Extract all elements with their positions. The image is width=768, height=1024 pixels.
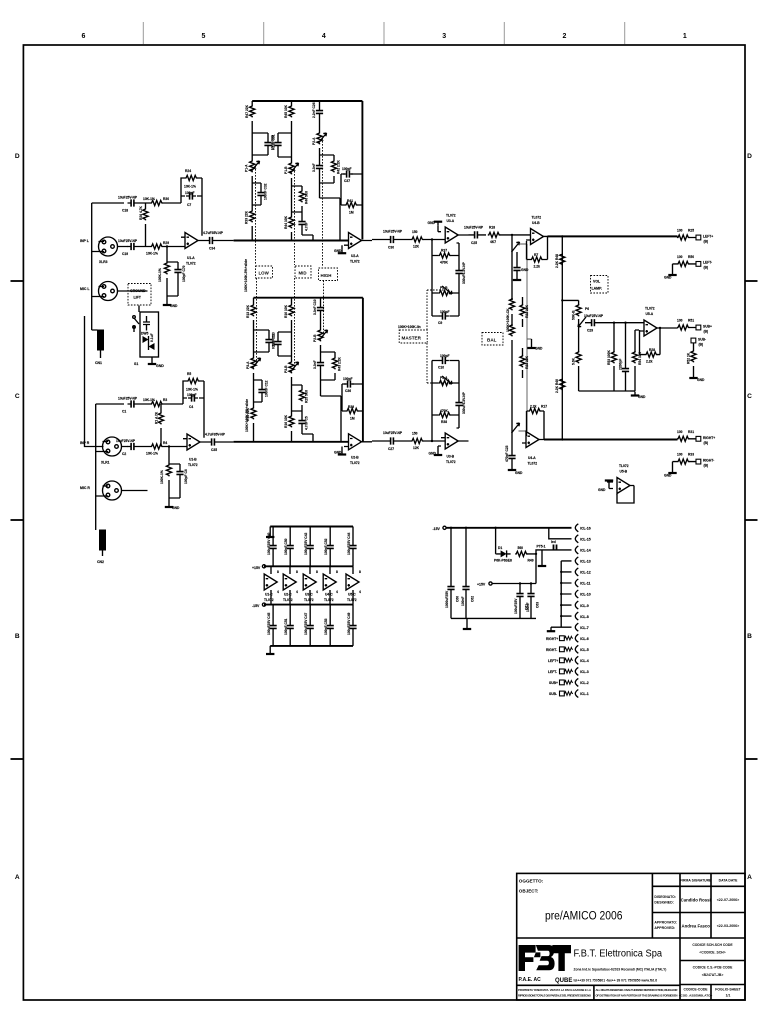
svg-text:PROPRIETA' RISERVATA. VIETATA: PROPRIETA' RISERVATA. VIETATA LA DIVULGA… xyxy=(518,988,591,992)
power top rail xyxy=(266,527,353,538)
svg-text:100: 100 xyxy=(677,453,683,457)
capacitor C26 2.2nF top xyxy=(312,101,323,127)
svg-text:100pF: 100pF xyxy=(440,310,450,314)
svg-text:R42 2.2K: R42 2.2K xyxy=(337,159,341,174)
svg-text:1M: 1M xyxy=(350,417,355,421)
svg-text:CN1: CN1 xyxy=(95,361,102,365)
caps bottom rail xyxy=(451,618,536,629)
svg-text:R47 22K: R47 22K xyxy=(245,104,249,118)
top capacitor C42 xyxy=(304,527,314,567)
svg-text:TL072: TL072 xyxy=(188,463,198,467)
wire input left bus xyxy=(92,203,148,330)
svg-text:2.2K R40: 2.2K R40 xyxy=(555,379,559,393)
svg-text:R30: R30 xyxy=(163,197,169,201)
-15V feed wire xyxy=(433,526,572,531)
svg-text:R43 2.2K: R43 2.2K xyxy=(338,356,342,371)
svg-text:100nF C53: 100nF C53 xyxy=(324,618,328,635)
svg-text:C18: C18 xyxy=(122,209,128,213)
feedback resistor R17 2.2k xyxy=(527,405,548,440)
pad LEFT- with ground xyxy=(664,261,712,280)
svg-text:4.7nF C5: 4.7nF C5 xyxy=(305,416,309,430)
master feedback resistor R37 470K xyxy=(432,240,459,265)
svg-text:+15V: +15V xyxy=(477,583,486,587)
zone numbers top xyxy=(81,33,686,40)
svg-text:RIGHT-: RIGHT- xyxy=(546,648,557,652)
supply op-amp U1-C xyxy=(264,566,279,604)
svg-text:1000uF25V: 1000uF25V xyxy=(445,590,449,608)
svg-text:100uF25V C45: 100uF25V C45 xyxy=(267,612,271,635)
svg-text:/CL-7: /CL-7 xyxy=(580,626,589,630)
capacitor C11 xyxy=(272,332,292,356)
svg-text:(B): (B) xyxy=(704,441,709,445)
svg-text:XLR3: XLR3 xyxy=(99,260,108,264)
svg-text:4.7nF: 4.7nF xyxy=(305,222,309,231)
capacitor C9 xyxy=(432,293,459,325)
sub filter resistor R54 xyxy=(632,330,642,391)
svg-text:GND: GND xyxy=(664,276,672,280)
svg-text:OGGETTO:: OGGETTO: xyxy=(519,878,544,883)
capacitor C25 xyxy=(464,226,486,246)
svg-text:R13 22K: R13 22K xyxy=(246,304,250,318)
wiper bus bal xyxy=(519,244,532,431)
svg-text:CODICE SCH-SCH CODE: CODICE SCH-SCH CODE xyxy=(692,943,733,947)
svg-text:2.2k: 2.2k xyxy=(646,360,653,364)
svg-text:OF DISTRIBUTION OF ANY PORTION: OF DISTRIBUTION OF ANY PORTION OF THIS D… xyxy=(596,994,678,998)
svg-text:R25 5K6: R25 5K6 xyxy=(305,390,309,403)
svg-text:C: C xyxy=(15,393,20,400)
capacitor C30 xyxy=(372,230,406,250)
feedback capacitor C4 xyxy=(187,393,198,409)
svg-text:DESIGNED:: DESIGNED: xyxy=(654,901,673,905)
svg-text:LAMP.: LAMP. xyxy=(592,287,603,291)
svg-text:A: A xyxy=(15,874,20,881)
capacitor C28 bottom xyxy=(298,212,313,241)
pot P5-B xyxy=(432,286,459,296)
capacitor C10t 3.3nF top xyxy=(313,298,324,324)
svg-text:100pF: 100pF xyxy=(185,191,195,195)
svg-text:C60: C60 xyxy=(456,596,460,602)
feedback capacitor C7 xyxy=(185,191,196,207)
svg-text:P5-B: P5-B xyxy=(440,286,448,290)
svg-text:INP L: INP L xyxy=(80,239,90,243)
svg-text:R37: R37 xyxy=(441,249,447,253)
bottom capacitor C46 xyxy=(284,605,294,646)
svg-text:MASTER: MASTER xyxy=(402,336,422,341)
resistor R18 xyxy=(488,226,531,245)
svg-text:100nF C12: 100nF C12 xyxy=(265,380,269,397)
resistor R49 560 xyxy=(515,546,571,563)
svg-text:C37: C37 xyxy=(344,179,350,183)
svg-text:100: 100 xyxy=(677,255,683,259)
svg-text:4: 4 xyxy=(296,590,298,594)
svg-text:470K: 470K xyxy=(440,261,449,265)
ground below R6 xyxy=(165,498,180,510)
svg-text:U1-B: U1-B xyxy=(189,458,197,462)
svg-text:C29: C29 xyxy=(587,329,593,333)
svg-text:R51: R51 xyxy=(688,319,694,323)
capacitor C33 xyxy=(252,133,274,155)
svg-text:R17: R17 xyxy=(541,405,547,409)
svg-text:<22-07-2006>: <22-07-2006> xyxy=(717,898,740,902)
op-amp U5-A TL072 xyxy=(640,307,660,337)
power bottom rail xyxy=(266,646,353,654)
capacitor C12 xyxy=(254,380,269,402)
capacitor C60 xyxy=(445,527,460,619)
svg-text:tel++39 071 7505801 -fax++ 39: tel++39 071 7505801 -fax++ 39 071 750585… xyxy=(574,979,658,983)
resistor R25o 100 xyxy=(677,229,696,241)
svg-text:10K-1%: 10K-1% xyxy=(186,388,198,392)
svg-text:U5-C: U5-C xyxy=(348,593,356,597)
svg-text:DW5: DW5 xyxy=(141,332,148,336)
svg-text:LEFT-: LEFT- xyxy=(703,261,712,265)
ground below lift box xyxy=(148,357,164,368)
svg-text:100K+100K-lin: 100K+100K-lin xyxy=(398,325,421,329)
logo sub text xyxy=(519,977,573,984)
svg-text:100pF: 100pF xyxy=(440,354,450,358)
feedback resistor R24 xyxy=(181,169,202,236)
slider wiper dashed lines xyxy=(256,138,323,267)
svg-text:BAL: BAL xyxy=(487,338,497,343)
feedback capacitor C36 xyxy=(342,377,363,411)
svg-text:8: 8 xyxy=(336,570,338,574)
capacitor C32 xyxy=(252,183,267,205)
svg-text:R10 10K: R10 10K xyxy=(284,304,288,318)
svg-text:U4-C: U4-C xyxy=(325,593,333,597)
svg-text:50K-B: 50K-B xyxy=(572,310,576,320)
svg-text:470K: 470K xyxy=(440,409,449,413)
svg-text:U4-B: U4-B xyxy=(532,221,540,225)
node junction input L xyxy=(166,245,168,247)
wire RIGHT+ line xyxy=(544,439,678,441)
op-amp U3-B TL072 xyxy=(429,433,469,464)
PT5-1 node xyxy=(535,545,546,556)
svg-text:10uF25V-NP: 10uF25V-NP xyxy=(584,314,604,318)
chassis connector CN1 xyxy=(92,330,104,365)
svg-text:R45 10K: R45 10K xyxy=(284,104,288,118)
svg-text:GND: GND xyxy=(156,364,164,368)
pad LEFT+ xyxy=(696,235,713,244)
title block signature header xyxy=(680,878,738,882)
svg-text:APPROVATO:: APPROVATO: xyxy=(654,921,677,925)
svg-text:10K-1%: 10K-1% xyxy=(184,185,196,189)
LOW dashed label xyxy=(256,266,273,278)
resistor R51 100 xyxy=(659,319,696,331)
svg-text:100K-1%: 100K-1% xyxy=(160,470,164,484)
slider wiper dashed lines R xyxy=(257,278,324,367)
diode D1 xyxy=(494,527,512,563)
op-amp U4-A TL072 xyxy=(522,432,544,466)
capacitor C27m xyxy=(372,431,406,451)
svg-text:/CL-2: /CL-2 xyxy=(580,681,589,685)
capacitor C34 xyxy=(203,231,234,251)
svg-text:100pF C70: 100pF C70 xyxy=(182,265,186,282)
svg-text:SUB-: SUB- xyxy=(698,338,706,342)
svg-text:TL072: TL072 xyxy=(619,464,629,468)
svg-text:D: D xyxy=(15,153,20,160)
svg-text:GND: GND xyxy=(521,268,529,272)
resistor R43 2.2K xyxy=(321,352,342,380)
supply op-amp U5-C xyxy=(346,566,361,604)
svg-text:2.2k: 2.2k xyxy=(534,265,541,269)
GROUND LIFT dashed box xyxy=(128,284,151,306)
svg-text:U2-C: U2-C xyxy=(284,593,292,597)
feedback resistor R7 2.2k xyxy=(527,236,548,268)
resistor R42 2.2K xyxy=(320,155,341,183)
svg-text:GND: GND xyxy=(334,249,342,253)
svg-text:/CL-16: /CL-16 xyxy=(580,527,591,531)
wire tone R mid join xyxy=(321,380,342,442)
svg-text:CODICE-CODE: CODICE-CODE xyxy=(683,988,708,992)
svg-text:P1-B: P1-B xyxy=(284,166,288,174)
svg-text:5.6K: 5.6K xyxy=(572,357,576,365)
svg-text:TL072: TL072 xyxy=(645,307,655,311)
svg-text:330uF6.3V-NP: 330uF6.3V-NP xyxy=(462,261,466,284)
top capacitor C44 xyxy=(347,527,357,567)
title block OGGETTO cell xyxy=(519,878,623,922)
svg-text:U4-A: U4-A xyxy=(528,456,536,460)
svg-text:2.2k: 2.2k xyxy=(530,405,537,409)
resistor R22 xyxy=(520,297,529,327)
svg-text:R26 4.7K: R26 4.7K xyxy=(139,205,143,220)
svg-text:8: 8 xyxy=(277,570,279,574)
svg-text:LEFT-: LEFT- xyxy=(548,670,557,674)
capacitor C61 xyxy=(514,582,529,618)
pad RIGHT+ xyxy=(696,436,715,445)
designer row xyxy=(654,895,739,905)
svg-text:R52 1K: R52 1K xyxy=(687,352,691,364)
bottom capacitor C48 xyxy=(324,605,334,646)
bottom capacitor C45 xyxy=(267,605,277,646)
svg-text:TL072: TL072 xyxy=(532,216,542,220)
svg-text:2200pF: 2200pF xyxy=(619,359,623,370)
ground lift network box xyxy=(140,312,159,357)
wire LEFT+ line xyxy=(548,235,678,237)
svg-text:/CL-4: /CL-4 xyxy=(580,659,589,663)
svg-text:2: 2 xyxy=(563,33,567,40)
svg-text:4: 4 xyxy=(316,590,318,594)
svg-text:C27: C27 xyxy=(388,447,394,451)
feedback resistor R28 2.2k xyxy=(640,328,661,364)
svg-text:CN2: CN2 xyxy=(97,560,104,564)
svg-text:100pF: 100pF xyxy=(343,377,353,381)
+15V rail xyxy=(252,565,353,570)
svg-text:U3-C: U3-C xyxy=(305,593,313,597)
svg-text:P6: P6 xyxy=(585,307,589,311)
svg-text:-15V: -15V xyxy=(433,527,441,531)
svg-text:0.1uF C31: 0.1uF C31 xyxy=(272,134,276,150)
svg-text:P5-A: P5-A xyxy=(440,376,448,380)
svg-text:10uF25V-NP: 10uF25V-NP xyxy=(116,439,136,443)
ground stub bal wiper xyxy=(527,339,543,351)
svg-text:S1: S1 xyxy=(134,362,138,366)
svg-text:/CL-1: /CL-1 xyxy=(580,692,589,696)
company name xyxy=(574,949,667,983)
capacitor C35 xyxy=(205,433,234,453)
op-amp U5-B TL072 spare xyxy=(598,464,634,503)
top zone ticks xyxy=(143,22,624,44)
sub filter capacitor C38 xyxy=(619,322,630,392)
svg-text:U2-B: U2-B xyxy=(351,456,359,460)
svg-text:10K-1%: 10K-1% xyxy=(143,398,155,402)
resistor R26 xyxy=(139,203,148,247)
svg-text:TL072: TL072 xyxy=(446,460,456,464)
svg-text:R39: R39 xyxy=(348,405,354,409)
svg-text:R33: R33 xyxy=(688,453,694,457)
svg-text:8: 8 xyxy=(316,570,318,574)
svg-text:U5-B: U5-B xyxy=(620,470,628,474)
svg-text:LIFT: LIFT xyxy=(134,296,142,300)
svg-text:U5-A: U5-A xyxy=(646,312,654,316)
svg-text:R4: R4 xyxy=(163,441,167,445)
mini out LEFT- xyxy=(548,669,573,674)
svg-text:R22 22K: R22 22K xyxy=(525,304,529,318)
pad SUB- with R52 xyxy=(687,338,707,383)
svg-text:4.7uF35V-NP: 4.7uF35V-NP xyxy=(203,231,224,235)
svg-text:100: 100 xyxy=(677,319,683,323)
pot P2-B xyxy=(313,324,328,352)
svg-text:10uF25V-NP: 10uF25V-NP xyxy=(383,431,403,435)
svg-text:R5: R5 xyxy=(187,372,191,376)
svg-text:Candido Rossi: Candido Rossi xyxy=(681,898,711,903)
svg-text:R25: R25 xyxy=(688,229,694,233)
capacitor C23 xyxy=(505,441,523,475)
svg-text:1M: 1M xyxy=(349,211,354,215)
sub filter resistor R53 xyxy=(607,322,617,392)
feedback resistor R41 1M xyxy=(345,199,357,215)
BAL dashed label xyxy=(482,333,503,346)
ground stub PT5 xyxy=(538,550,546,566)
svg-text:4: 4 xyxy=(277,590,279,594)
svg-text:100uF25V C44: 100uF25V C44 xyxy=(347,532,351,555)
resistor R35 xyxy=(406,432,446,451)
svg-text:4K7: 4K7 xyxy=(490,240,496,244)
capacitor C18 xyxy=(118,196,138,213)
svg-text:TL072: TL072 xyxy=(304,598,314,602)
tone R input bus xyxy=(234,441,349,443)
svg-text:A: A xyxy=(747,874,752,881)
svg-text:R41: R41 xyxy=(347,199,353,203)
svg-text:10uF25V-NP: 10uF25V-NP xyxy=(383,230,403,234)
svg-text:R50: R50 xyxy=(688,255,694,259)
resistor R27 xyxy=(158,247,178,297)
svg-text:150: 150 xyxy=(412,230,418,234)
resistor R34 xyxy=(406,230,446,249)
svg-text:(B): (B) xyxy=(704,464,709,468)
svg-text:(B): (B) xyxy=(704,266,709,270)
svg-text:GND: GND xyxy=(664,474,672,478)
resistor R47 22K xyxy=(245,101,255,133)
svg-text:R23 22K: R23 22K xyxy=(525,355,529,369)
svg-text:C35: C35 xyxy=(211,448,217,452)
svg-text:MIC R: MIC R xyxy=(80,486,90,490)
svg-text:P1-A: P1-A xyxy=(245,164,249,172)
op-amp U1-B TL072 xyxy=(183,434,208,467)
svg-text:SUB-: SUB- xyxy=(549,692,557,696)
input connector XLR2 R xyxy=(103,481,122,500)
svg-text:100nF C32: 100nF C32 xyxy=(264,183,268,200)
svg-text:GND: GND xyxy=(535,347,543,351)
svg-text:/CL-15: /CL-15 xyxy=(580,538,591,542)
capacitor C13 xyxy=(254,330,276,352)
svg-text:R7: R7 xyxy=(534,253,538,257)
supply op-amp U2-C xyxy=(283,566,298,604)
ground sub filter xyxy=(630,391,646,399)
svg-text:OBJECT:: OBJECT: xyxy=(519,889,539,894)
svg-text:SUB+: SUB+ xyxy=(549,681,558,685)
fine print xyxy=(518,988,678,998)
svg-text:U3-A: U3-A xyxy=(447,219,455,223)
svg-text:XLR1: XLR1 xyxy=(101,461,110,465)
svg-text:C7: C7 xyxy=(187,203,191,207)
svg-text:GND: GND xyxy=(170,304,178,308)
svg-text:TL072: TL072 xyxy=(350,461,360,465)
svg-text:/CL-12: /CL-12 xyxy=(580,571,591,575)
svg-text:10K-1%: 10K-1% xyxy=(146,252,158,256)
svg-text:R16 10K: R16 10K xyxy=(284,414,288,428)
svg-text:VOL: VOL xyxy=(593,280,601,284)
svg-text:F.B.T. Elettronica Spa: F.B.T. Elettronica Spa xyxy=(574,949,663,960)
pot P3-A xyxy=(246,352,261,380)
svg-text:GND: GND xyxy=(697,378,705,382)
resistor R50 100 xyxy=(673,255,697,267)
svg-text:R38: R38 xyxy=(441,420,447,424)
top capacitor C40 xyxy=(267,527,277,567)
switch S1 xyxy=(133,306,139,367)
svg-text:TL072: TL072 xyxy=(446,214,456,218)
input connector XLR3 L xyxy=(80,237,118,291)
svg-text:560: 560 xyxy=(518,546,524,550)
svg-text:C36: C36 xyxy=(345,389,351,393)
svg-text:100nF C50: 100nF C50 xyxy=(284,538,288,555)
supply op-amp U4-C xyxy=(323,566,338,604)
input connector XLR1 R xyxy=(80,437,122,490)
svg-text:RIGHT+: RIGHT+ xyxy=(546,637,558,641)
svg-text:100pF: 100pF xyxy=(342,167,352,171)
zone letters left xyxy=(15,153,20,881)
mini out RIGHT- xyxy=(546,647,573,652)
svg-text:R24: R24 xyxy=(185,169,191,173)
bottom capacitor C47 xyxy=(304,605,314,646)
resistor R10 xyxy=(284,298,294,332)
svg-text:GND: GND xyxy=(638,395,646,399)
master wiper dashed xyxy=(427,290,444,383)
svg-text:Andrea Fasco: Andrea Fasco xyxy=(681,924,710,929)
op-amp U2-A TL072 xyxy=(334,233,372,264)
resistor R4 xyxy=(138,441,188,456)
capacitor C62 xyxy=(461,527,475,619)
-15V rail xyxy=(252,603,353,608)
svg-text:R28: R28 xyxy=(649,348,655,352)
svg-text:GND: GND xyxy=(334,451,342,455)
resistor R3 xyxy=(138,398,184,407)
svg-text:GND: GND xyxy=(172,506,180,510)
svg-text:12K: 12K xyxy=(413,446,420,450)
svg-text:1: 1 xyxy=(683,33,687,40)
sub pot P6 xyxy=(562,300,589,340)
svg-text:3: 3 xyxy=(442,33,446,40)
svg-text:100nF C52: 100nF C52 xyxy=(324,538,328,555)
svg-text:10K-1%: 10K-1% xyxy=(146,452,158,456)
svg-text:5: 5 xyxy=(202,33,206,40)
svg-text:330uF6.3V-NP: 330uF6.3V-NP xyxy=(462,391,466,414)
svg-text:10uF25V-NP: 10uF25V-NP xyxy=(118,239,138,243)
svg-text:B: B xyxy=(747,633,752,640)
+15V feed node xyxy=(477,554,536,587)
resistor R46 xyxy=(292,186,309,212)
svg-text:R44 10K: R44 10K xyxy=(284,215,288,229)
top capacitor C41 xyxy=(284,527,294,567)
svg-text:QUBE: QUBE xyxy=(555,978,572,984)
